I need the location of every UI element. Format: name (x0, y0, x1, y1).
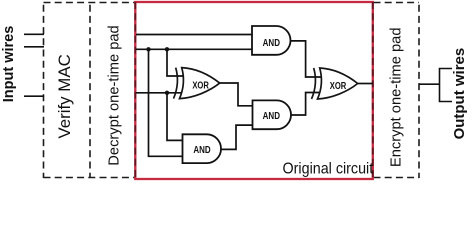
svg-text:AND: AND (263, 110, 281, 121)
dashed separator overlay on red right edge (372, 2, 374, 179)
svg-text:AND: AND (263, 37, 281, 48)
wire: AND2 output to XOR2 bottom input (290, 93, 321, 116)
svg-text:XOR: XOR (192, 79, 209, 90)
wire: AND3 output to AND2 bottom input (221, 125, 253, 149)
AND gate AND3 (bottom) (183, 134, 222, 163)
input wire stub 1 (24, 33, 44, 35)
outer dashed boundary box: bottom edge (left of red box) (44, 177, 136, 179)
junction node C1 (165, 91, 169, 95)
outer dashed boundary box: right edge (418, 3, 420, 179)
wire: AND1 output to XOR2 top input (291, 41, 322, 77)
outer dashed boundary box: top edge (right of red box) (374, 2, 420, 4)
wire: XOR2 output to red box edge (358, 83, 373, 85)
input wire stub 3 (24, 95, 44, 97)
junction node B1 (146, 47, 150, 51)
junction node B2 (165, 47, 169, 51)
AND gate AND1 (top) (252, 26, 291, 55)
outer dashed boundary box: left edge (43, 3, 45, 179)
wire: vertical from node B1 down to AND3 bottom input (149, 49, 185, 156)
red box: Original circuit (135, 2, 372, 179)
output stub wire (419, 83, 440, 85)
svg-text:Input wires: Input wires (1, 26, 17, 103)
wire: XOR1 output to AND2 top input (220, 83, 253, 106)
svg-text:Output wires: Output wires (451, 48, 468, 140)
wire: input B to AND1 bottom input (136, 48, 253, 50)
output fanout bracket (440, 69, 453, 102)
outer dashed boundary box: top edge (left of red box) (44, 2, 136, 4)
svg-text:Encrypt one-time pad: Encrypt one-time pad (389, 27, 405, 167)
XOR gate XOR2 (right) (312, 68, 358, 99)
svg-text:Decrypt one-time pad: Decrypt one-time pad (107, 25, 123, 165)
dashed separator between Verify MAC and Decrypt pad (89, 3, 91, 178)
wire: vertical from node B2 down to XOR1 top input (167, 49, 185, 76)
wire: vertical from node C1 down to AND3 top input (167, 93, 184, 141)
input wire stub 2 (24, 46, 44, 48)
svg-text:XOR: XOR (330, 80, 347, 91)
dashed separator overlay on red left edge (134, 2, 136, 179)
svg-text:Verify MAC: Verify MAC (55, 54, 74, 138)
wire: input C to XOR1 bottom input (136, 92, 185, 94)
XOR gate XOR1 (left) (174, 68, 220, 99)
svg-text:Original circuit: Original circuit (283, 160, 374, 178)
svg-text:AND: AND (193, 144, 211, 155)
AND gate AND2 (middle) (253, 100, 292, 129)
outer dashed boundary box: bottom edge (right of red box) (374, 177, 420, 179)
wire: input A to AND1 top input (136, 34, 253, 36)
